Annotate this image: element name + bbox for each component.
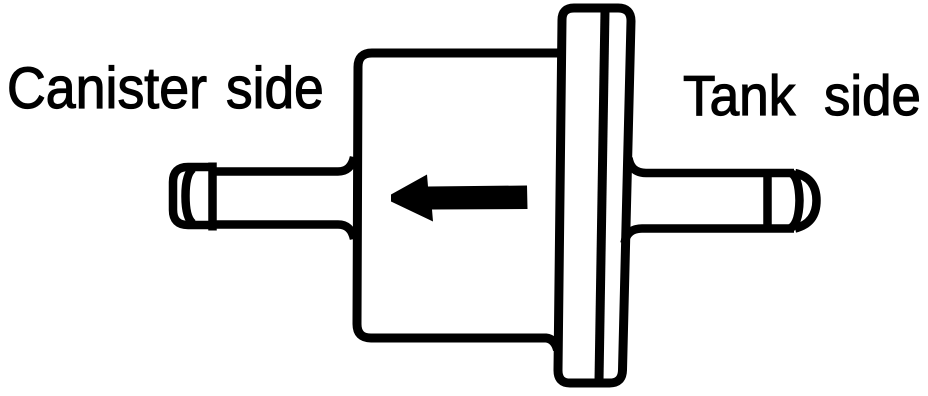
left pipe end cap outline: [173, 167, 212, 225]
label "Tank" (tank-side text): [683, 68, 795, 125]
valve body (rounded square housing): [357, 53, 560, 350]
left pipe cap rim (vertical edge): [208, 163, 217, 231]
right pipe bottom wall: [625, 229, 795, 244]
right pipe top wall (tank port): [629, 158, 795, 173]
left pipe bottom wall: [213, 225, 354, 240]
label "side" (right): [824, 68, 921, 125]
right pipe cap rim (vertical edge): [763, 171, 772, 231]
left pipe top wall (canister port): [213, 157, 354, 172]
flow direction arrow (points left toward canister): [391, 175, 528, 222]
left pipe end cap inner curve: [186, 169, 194, 224]
right pipe end cap outer curve: [795, 173, 817, 229]
flange inner edge line: [599, 10, 605, 381]
label "side" (left): [226, 60, 324, 118]
right pipe end cap inner curve: [790, 173, 800, 229]
flange disc (tall mounting flange, slight lean): [558, 8, 631, 383]
label "Canister" (canister-side text): [7, 60, 207, 118]
